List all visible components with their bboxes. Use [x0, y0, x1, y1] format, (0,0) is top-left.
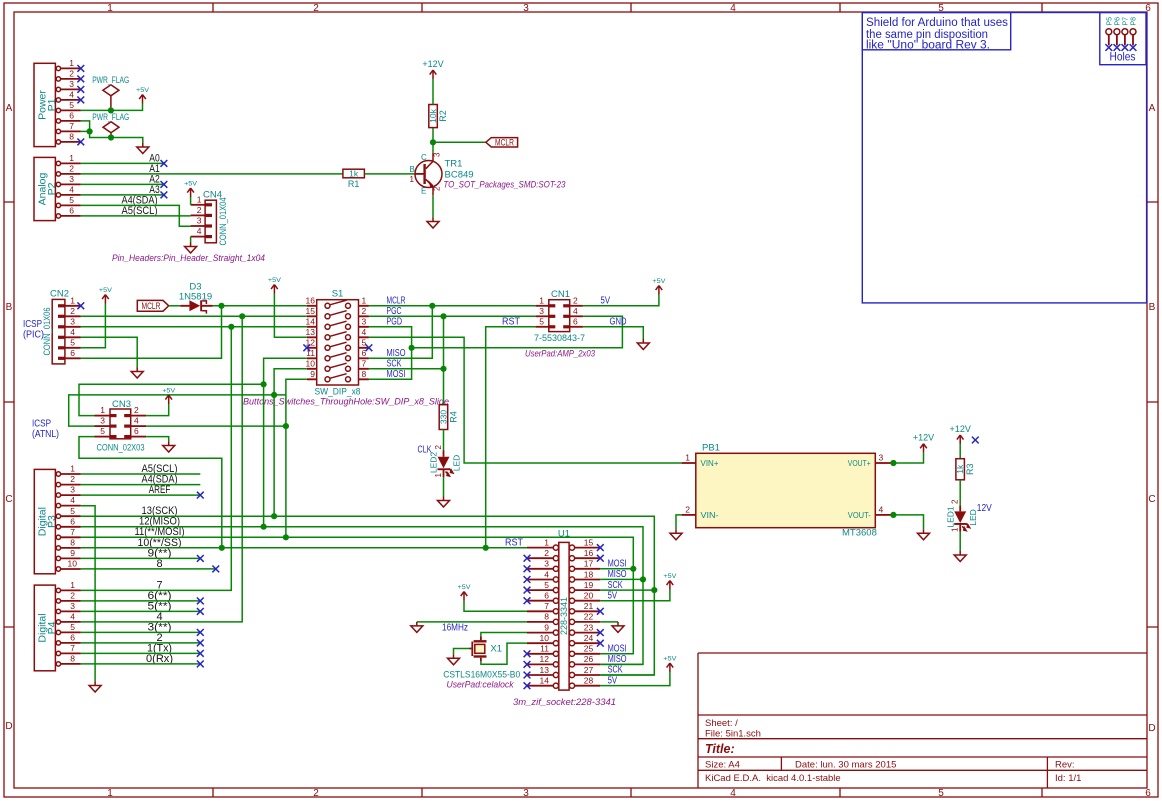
svg-text:LED1: LED1: [945, 506, 955, 528]
svg-text:4: 4: [70, 495, 75, 505]
CN1 pin 3: [536, 306, 556, 318]
wire CN3.5 to MCLR riser: [79, 437, 222, 548]
svg-text:5V: 5V: [608, 675, 618, 686]
svg-text:10: 10: [306, 359, 316, 369]
svg-text:1: 1: [69, 153, 74, 163]
wire PGD branch to CN1.4: [412, 316, 623, 348]
P3 pin 2: [56, 474, 81, 487]
frame row ticks left: [4, 202, 14, 627]
hierarchical sheet big blue rectangle: [862, 13, 1146, 303]
junction P3.5 / S1.10 riser: [271, 513, 277, 519]
CN4 pin 3: [191, 216, 212, 228]
U1 pin 22: [569, 612, 600, 625]
svg-text:1: 1: [197, 194, 202, 204]
power +5V (U1.7): [458, 584, 472, 601]
U1 pin 23: [569, 622, 600, 635]
ground (P1 net): [137, 143, 149, 154]
wire CN4.4 to ground: [190, 237, 192, 243]
junction P1.6/P1.7: [87, 128, 93, 134]
power +12V (R2): [422, 59, 443, 79]
diode D3 1N5819: [179, 282, 213, 314]
svg-text:5: 5: [70, 622, 75, 632]
wire CN3.1 riser to MISO row: [79, 384, 264, 415]
wire A4(SDA) to CN4.3: [81, 205, 191, 226]
S1 switch row 3 pins 14/3: [306, 317, 369, 330]
power +12V (R3): [950, 424, 971, 444]
U1 pin 13: [527, 665, 559, 678]
no-connect CN2.1: [77, 302, 84, 309]
power +5V (U1.28): [663, 656, 677, 673]
junction CN2.3 / net 7 riser: [228, 324, 234, 330]
svg-text:PWR_FLAG: PWR_FLAG: [92, 75, 129, 85]
wire PB1.4 to ground: [891, 515, 924, 529]
svg-text:(ATNL): (ATNL): [32, 429, 59, 440]
mounting hole pin P6: [1114, 17, 1122, 46]
transistor TR1 BC849: [410, 152, 566, 196]
svg-text:SCK: SCK: [608, 580, 623, 591]
P1 pin 3: [56, 79, 81, 92]
junction SCK / U1.19: [651, 587, 657, 593]
svg-text:1: 1: [70, 464, 75, 474]
svg-text:R1: R1: [348, 179, 360, 189]
junction SCK row / S1.10 riser: [271, 392, 277, 398]
svg-text:1: 1: [100, 405, 105, 415]
P1 pin 2: [56, 69, 81, 82]
P3 pin 6: [56, 516, 81, 529]
svg-text:2: 2: [197, 205, 202, 215]
svg-text:Id: 1/1: Id: 1/1: [1055, 773, 1081, 784]
CN2 pin 4: [58, 327, 81, 339]
svg-text:21: 21: [584, 601, 594, 611]
svg-text:MCLR: MCLR: [142, 301, 161, 311]
LED LED1: [945, 499, 978, 532]
P2 pin 2: [56, 164, 81, 177]
P2 pin 3: [56, 174, 81, 187]
svg-text:7: 7: [70, 643, 75, 653]
wire CN2.5 to +5V: [81, 304, 106, 348]
svg-text:14: 14: [306, 317, 316, 327]
svg-text:A: A: [1149, 103, 1156, 114]
wire CN4.1 to +5V: [190, 197, 192, 205]
P4 pin 2: [56, 591, 81, 604]
S1 switch row 6 pins 11/6: [306, 348, 369, 361]
svg-text:5: 5: [70, 337, 75, 347]
svg-text:0(Rx): 0(Rx): [146, 653, 173, 665]
no-connect marker near +12V: [972, 437, 979, 444]
connector CN4: [203, 190, 229, 246]
svg-text:12V: 12V: [977, 503, 992, 514]
ground (P3.4): [89, 682, 101, 693]
power +5V (CN1.2): [652, 278, 666, 295]
no-connect P4.3: [197, 608, 204, 615]
U1 pin 15: [569, 537, 600, 550]
wire P3.3 AREF: [81, 494, 201, 496]
svg-text:Holes: Holes: [1110, 50, 1136, 64]
P4 pin 3: [56, 601, 81, 614]
svg-text:RST: RST: [502, 317, 520, 328]
CN1 pin 1: [536, 295, 556, 307]
ground (CN1.6): [637, 339, 649, 350]
U1 pin 7: [527, 601, 559, 614]
wire X1 to ground: [454, 649, 470, 655]
svg-text:9: 9: [310, 369, 315, 379]
svg-text:5: 5: [362, 338, 367, 348]
svg-text:VIN+: VIN+: [701, 459, 719, 468]
frame column numbers bottom: [107, 788, 1151, 799]
svg-text:4: 4: [134, 416, 139, 426]
P1 pin 5: [56, 100, 81, 113]
P4 pin 8: [56, 654, 81, 667]
svg-text:R3: R3: [965, 463, 975, 475]
U1 pin 14: [527, 676, 559, 689]
ground (U1.22): [612, 622, 624, 633]
CN3 pin 2: [124, 405, 146, 417]
junction PB1.4: [890, 512, 896, 518]
svg-text:MOSI: MOSI: [608, 643, 627, 654]
S1 switch row 1 pins 16/1: [306, 296, 369, 309]
wire S1.9 riser to P3.7: [286, 379, 307, 537]
svg-text:16MHz: 16MHz: [442, 622, 468, 633]
S1 switch row 8 pins 9/8: [307, 369, 369, 382]
wire P1.6 down to pin7 row: [81, 121, 90, 131]
P2 pin 6: [56, 206, 81, 219]
U1 pin 12: [527, 654, 559, 667]
svg-text:1: 1: [544, 537, 549, 547]
svg-text:1: 1: [410, 175, 415, 184]
wire P3.6 12(MISO) to U1: [81, 527, 643, 665]
wire P4.6: [81, 642, 201, 644]
wire PB1.3 to +12V: [891, 453, 924, 463]
wire TR1 collector to junction: [432, 128, 434, 153]
svg-text:18: 18: [584, 569, 594, 579]
svg-text:E: E: [421, 187, 426, 196]
connector P1 Power: [34, 63, 58, 146]
connector CN2 (ICSP PIC): [42, 289, 69, 364]
svg-text:7: 7: [70, 527, 75, 537]
ground (CN2.4): [131, 368, 143, 379]
svg-text:1: 1: [70, 580, 75, 590]
LED LED2: [429, 445, 462, 478]
mounting hole pin P5: [1106, 17, 1114, 46]
P1 pin 6: [56, 111, 81, 124]
P3 pin 5: [56, 506, 81, 519]
svg-text:CN1: CN1: [551, 289, 570, 300]
U1 pin 3: [527, 559, 559, 572]
P2 pin 5: [56, 195, 81, 208]
power +5V (P1): [136, 87, 150, 104]
P3 pin 4: [56, 495, 81, 508]
wire U1.26: [600, 663, 643, 665]
resistor R2: [428, 105, 448, 128]
svg-text:Rev:: Rev:: [1055, 760, 1075, 771]
junction P3.6 / S1.11 riser: [261, 524, 267, 530]
frame row letters right: [1148, 103, 1155, 734]
PB1 pin 1: [682, 453, 696, 463]
svg-text:4: 4: [69, 90, 74, 100]
svg-text:CN2: CN2: [50, 289, 69, 300]
junction MCLR / S1.6 branch: [429, 303, 435, 309]
P2 pin 4: [56, 185, 81, 198]
svg-text:3: 3: [70, 601, 75, 611]
wire U1.18: [600, 578, 643, 580]
wire TR1 emitter to ground: [432, 195, 434, 217]
svg-text:TO_SOT_Packages_SMD:SOT-23: TO_SOT_Packages_SMD:SOT-23: [443, 180, 566, 191]
wire S1.4 to PB1 VIN+: [369, 337, 682, 463]
svg-text:15: 15: [306, 306, 316, 316]
U1 pin 4: [527, 569, 559, 582]
wire +5V to S1.13: [274, 294, 306, 338]
no-connect P4.7: [197, 650, 204, 657]
svg-text:P7: P7: [1122, 17, 1129, 26]
wire CN1.6 to ground: [583, 327, 643, 339]
svg-text:Date: lun. 30 mars 2015: Date: lun. 30 mars 2015: [795, 760, 896, 771]
wire CN1.2 to +5V: [583, 295, 659, 306]
svg-text:S1: S1: [332, 289, 344, 300]
S1 switch row 2 pins 15/2: [306, 306, 369, 319]
wire S1.6 up to MCLR: [369, 306, 432, 359]
svg-text:MOSI: MOSI: [608, 559, 627, 570]
svg-text:1: 1: [362, 296, 367, 306]
wire U1.17: [600, 568, 633, 570]
svg-text:LED2: LED2: [429, 452, 439, 474]
svg-text:2: 2: [70, 591, 75, 601]
PB1 pin 3: [875, 453, 891, 463]
wire LED1 to ground: [959, 532, 961, 552]
resonator X1: [470, 636, 503, 661]
svg-text:8: 8: [156, 558, 162, 570]
svg-text:CONN_02X03: CONN_02X03: [97, 443, 145, 454]
connector P2 Analog: [34, 157, 58, 220]
U1 pin 1: [527, 537, 559, 550]
frame row ticks right: [1147, 202, 1158, 627]
svg-text:2: 2: [573, 295, 578, 305]
svg-text:25: 25: [584, 644, 594, 654]
svg-text:C: C: [5, 494, 12, 505]
P4 pin 4: [56, 612, 81, 625]
svg-text:GND: GND: [610, 317, 627, 328]
no-connects P1 pins 1-4,8: [77, 65, 84, 72]
svg-text:7: 7: [69, 121, 74, 131]
svg-text:6: 6: [70, 348, 75, 358]
svg-text:KiCad E.D.A. kicad 4.0.1-stab: KiCad E.D.A. kicad 4.0.1-stable: [705, 773, 841, 784]
ground (CN3.6): [163, 442, 175, 453]
svg-text:4: 4: [544, 569, 549, 579]
wire MCLR label to D3 anode: [169, 305, 181, 307]
wire S1.11 riser to P3.6: [264, 358, 307, 526]
svg-text:7: 7: [362, 359, 367, 369]
wire U1.22 to ground: [600, 621, 618, 623]
ground (LED2): [438, 497, 450, 508]
svg-text:27: 27: [584, 665, 594, 675]
wire A2: [81, 183, 164, 185]
resistor R1: [343, 169, 365, 189]
svg-text:4: 4: [70, 612, 75, 622]
svg-text:B: B: [6, 302, 13, 313]
CN4 pin 1: [191, 194, 212, 206]
junction PGC / R4 riser: [440, 313, 446, 319]
svg-text:Pin_Headers:Pin_Header_Straigh: Pin_Headers:Pin_Header_Straight_1x04: [112, 253, 265, 264]
svg-text:5V: 5V: [601, 296, 611, 307]
CN1 pin 2: [563, 295, 583, 307]
wire A3: [81, 194, 164, 196]
svg-text:2: 2: [70, 306, 75, 316]
svg-text:PGD: PGD: [387, 317, 403, 328]
svg-text:B: B: [1149, 302, 1156, 313]
svg-text:1k: 1k: [955, 464, 965, 474]
wire P4.3: [81, 610, 201, 612]
wire A1 to R1: [81, 173, 343, 175]
svg-text:6: 6: [70, 516, 75, 526]
svg-text:PWR_FLAG: PWR_FLAG: [92, 112, 129, 122]
svg-text:4: 4: [362, 327, 367, 337]
junction MISO row / S1.11 riser: [261, 381, 267, 387]
svg-text:8: 8: [544, 612, 549, 622]
U1 pin 26: [569, 654, 600, 667]
wire P3.10: [81, 568, 216, 570]
svg-text:LED: LED: [452, 455, 462, 472]
wire CN3.2 to +5V: [146, 404, 169, 416]
svg-text:6: 6: [573, 316, 578, 326]
P1 pin 4: [56, 90, 81, 103]
frame column numbers top: [107, 3, 1151, 14]
wire +12V to R3: [959, 444, 961, 459]
wire U1.28 to +5V: [600, 672, 670, 686]
svg-text:5V: 5V: [608, 590, 618, 601]
junction MCLR/R2/TR1: [430, 139, 436, 145]
svg-text:6: 6: [69, 111, 74, 121]
wire S1.2 PGC to CN1.3: [369, 315, 536, 317]
svg-text:1k: 1k: [349, 169, 359, 179]
S1 switch row 7 pins 10/7: [306, 359, 369, 372]
CN4 pin 4: [191, 226, 212, 238]
CN2 pin 2: [58, 306, 81, 318]
svg-text:2: 2: [69, 164, 74, 174]
svg-text:1: 1: [434, 473, 443, 478]
CN1 pin 4: [563, 306, 583, 318]
svg-text:22: 22: [584, 612, 594, 622]
CN1 pin 5: [536, 316, 556, 328]
svg-text:VOUT+: VOUT+: [848, 459, 871, 468]
svg-text:13: 13: [540, 665, 550, 675]
wire S1.3 PGD down to S1.8 row: [369, 327, 412, 380]
wire P3.9: [81, 557, 201, 559]
wire P1.5 to +5V: [81, 104, 143, 111]
U1 pin 5: [527, 580, 559, 593]
power +5V (CN2.5): [99, 287, 113, 304]
wire riser net 4 (CN2.2 to P4.4): [81, 316, 242, 622]
ground (PB1.2): [670, 529, 682, 540]
svg-text:5: 5: [69, 100, 74, 110]
CN4 pin 2: [191, 205, 212, 217]
wire S1.10 riser to P3.5: [274, 369, 307, 516]
mounting hole pin P8: [1130, 17, 1138, 46]
svg-text:24: 24: [584, 633, 594, 643]
svg-text:3: 3: [69, 174, 74, 184]
svg-text:MT3608: MT3608: [842, 527, 877, 538]
connector CN1: [534, 289, 585, 344]
svg-text:1: 1: [539, 295, 544, 305]
svg-text:Size: A4: Size: A4: [705, 760, 740, 771]
svg-text:6: 6: [544, 591, 549, 601]
junction CN3.4 / S1.9 riser: [283, 423, 289, 429]
svg-text:6: 6: [1145, 788, 1151, 799]
S1 switch row 5 pins 12/5: [306, 338, 369, 351]
wire U1.7 to +5V: [464, 601, 527, 612]
svg-text:PGC: PGC: [387, 306, 402, 317]
svg-text:1: 1: [685, 453, 690, 463]
no-connect P4.2: [197, 598, 204, 605]
svg-text:3: 3: [523, 788, 529, 799]
wire U1.9 to X1 top: [481, 633, 527, 637]
svg-text:Shield for Arduino that uses: Shield for Arduino that uses: [866, 17, 1008, 29]
U1 pin 10: [527, 633, 559, 646]
svg-text:9: 9: [70, 548, 75, 558]
U1 pin 24: [569, 633, 600, 646]
no-connects S1 row 5: [303, 344, 310, 351]
svg-text:8: 8: [70, 654, 75, 664]
svg-text:like ''Uno'' board Rev 3.: like ''Uno'' board Rev 3.: [866, 39, 990, 51]
svg-text:2: 2: [544, 548, 549, 558]
svg-text:330: 330: [439, 410, 449, 424]
svg-text:MCLR: MCLR: [495, 138, 514, 148]
svg-text:PB1: PB1: [702, 442, 720, 453]
CN3 pin 4: [124, 416, 146, 428]
wire U1.8 to ground: [417, 621, 527, 623]
svg-text:C: C: [421, 153, 427, 162]
no-connect AREF: [197, 492, 204, 499]
svg-text:7: 7: [544, 601, 549, 611]
U1 pin 6: [527, 591, 559, 604]
U1 pin 17: [569, 559, 600, 572]
global label MCLR (D3): [137, 300, 168, 311]
P4 pin 7: [56, 643, 81, 656]
svg-text:SCK: SCK: [608, 665, 623, 676]
svg-text:5: 5: [938, 788, 944, 799]
svg-text:RST: RST: [505, 538, 523, 549]
P3 pin 7: [56, 527, 81, 540]
wire LED2 to ground: [443, 477, 445, 497]
svg-text:13: 13: [306, 327, 316, 337]
CN3 pin 3: [95, 416, 117, 428]
wire P3.8 10(SS) RST to U1.1: [81, 547, 527, 549]
wire D3 cathode to junction and S1.16: [213, 305, 307, 307]
svg-text:CN3: CN3: [112, 399, 131, 410]
svg-text:MISO: MISO: [608, 569, 627, 580]
svg-text:A: A: [6, 103, 13, 114]
CN3 pin 1: [95, 405, 117, 417]
svg-text:2: 2: [433, 186, 442, 191]
U1 pin 8: [527, 612, 559, 625]
P3 pin 1: [56, 464, 81, 477]
wire CN1.5 RST riser to U1.1 net: [486, 327, 536, 548]
title block: [698, 653, 1147, 788]
no-connect A3: [161, 192, 168, 199]
power +5V (S1.13): [268, 277, 282, 294]
no-connect A2: [161, 181, 168, 188]
svg-text:11: 11: [540, 644, 549, 654]
svg-text:3: 3: [197, 216, 202, 226]
wire CN3.4 to MOSI riser: [146, 425, 286, 427]
svg-text:U1: U1: [558, 529, 570, 540]
wire P4.8: [81, 663, 201, 665]
frame column ticks bottom: [213, 788, 1042, 797]
wire P4.5: [81, 631, 201, 633]
wire U1.20 to +5V: [600, 590, 670, 601]
wire junction down and right to ground: [90, 131, 143, 143]
junction P3.8 / MCLR riser: [219, 545, 225, 551]
svg-text:P5: P5: [1106, 17, 1113, 26]
module PB1 MT3608: [696, 442, 877, 538]
